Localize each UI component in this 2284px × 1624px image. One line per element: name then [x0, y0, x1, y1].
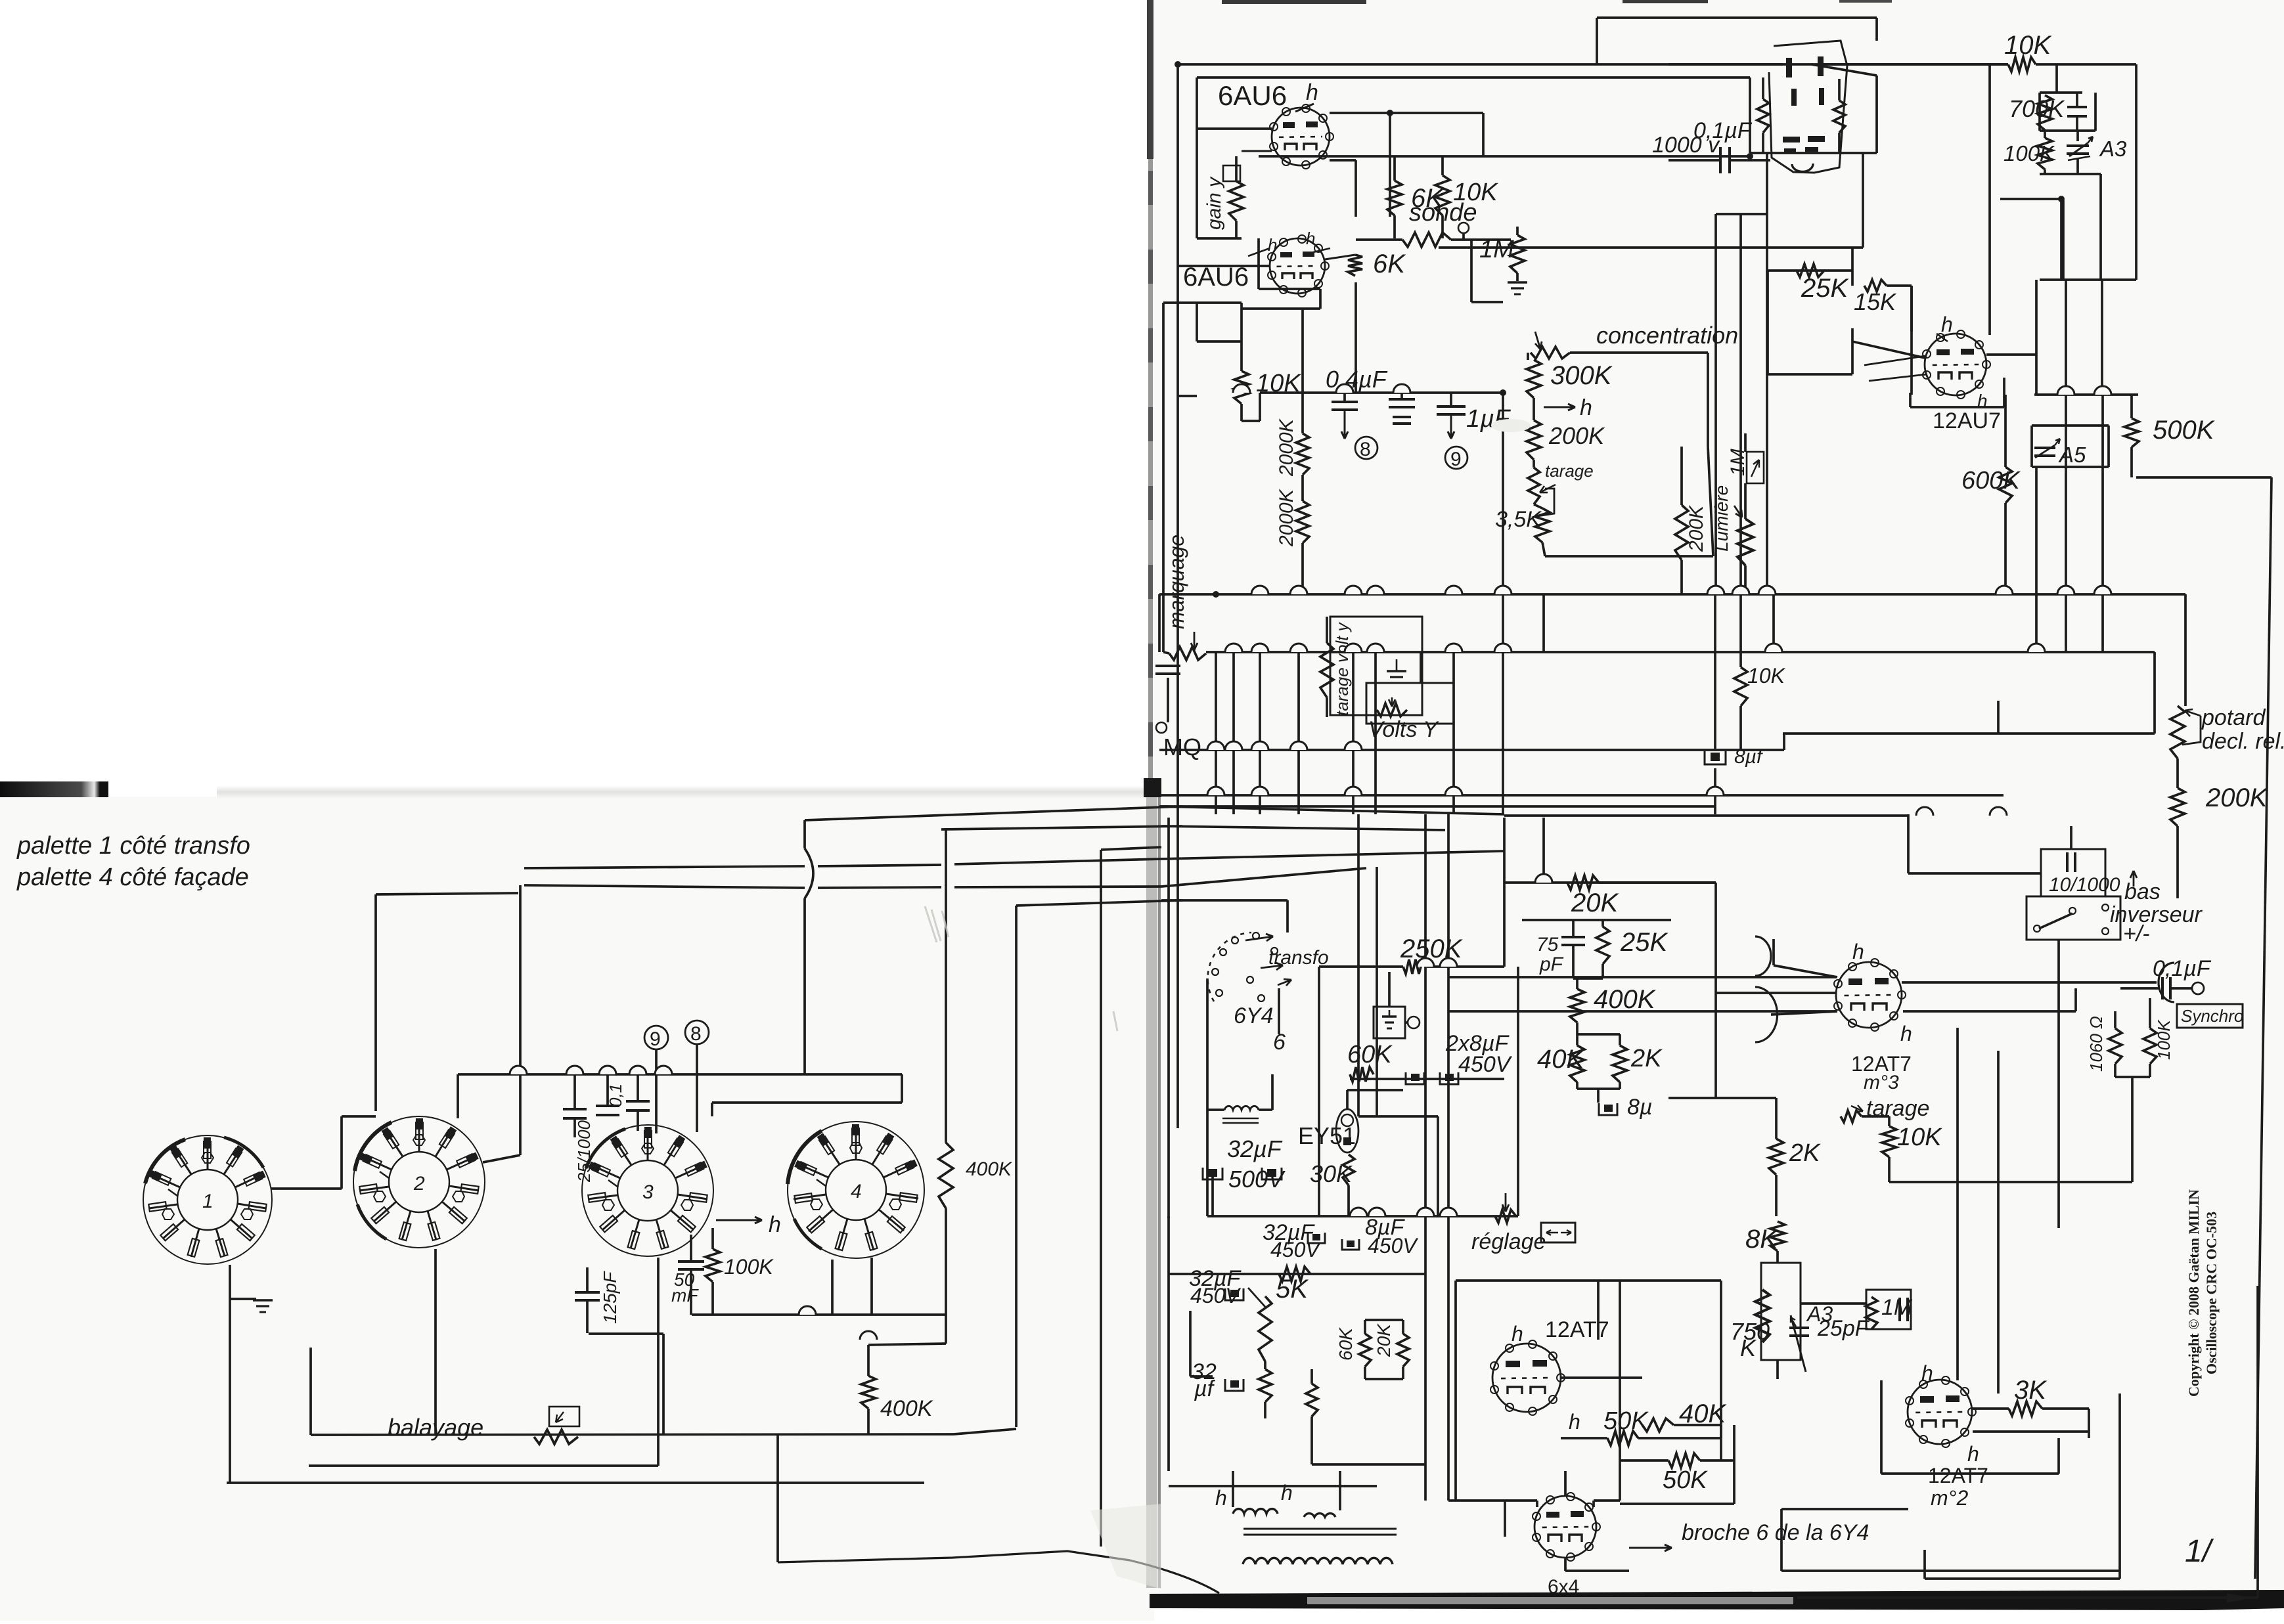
svg-text:Oscilloscope CRC OC-503: Oscilloscope CRC OC-503 — [2203, 1212, 2220, 1374]
svg-text:10K: 10K — [2004, 31, 2052, 60]
svg-text:700K: 700K — [2009, 95, 2065, 122]
svg-text:6K: 6K — [1373, 250, 1406, 278]
svg-text:6Y4: 6Y4 — [1234, 1003, 1274, 1028]
svg-text:transfo: transfo — [1268, 947, 1329, 969]
svg-text:pF: pF — [1539, 954, 1564, 975]
svg-text:h: h — [1967, 1442, 1979, 1466]
svg-text:10K: 10K — [1897, 1124, 1942, 1151]
svg-text:20K: 20K — [1374, 1323, 1394, 1357]
svg-text:60K: 60K — [1335, 1327, 1356, 1361]
svg-text:50K: 50K — [1603, 1407, 1649, 1435]
svg-text:1M: 1M — [1727, 449, 1749, 476]
svg-text:h: h — [1511, 1322, 1523, 1346]
svg-text:50K: 50K — [1663, 1466, 1708, 1494]
svg-text:palette 4 côté façade: palette 4 côté façade — [16, 864, 249, 891]
svg-text:tarage: tarage — [1545, 461, 1594, 481]
svg-text:8K: 8K — [1745, 1225, 1779, 1254]
svg-text:200K: 200K — [1686, 504, 1707, 552]
svg-text:4: 4 — [851, 1181, 862, 1202]
svg-text:3K: 3K — [2014, 1376, 2048, 1405]
svg-text:2: 2 — [413, 1173, 425, 1195]
svg-text:2000K: 2000K — [1276, 488, 1297, 547]
svg-text:100K: 100K — [2154, 1019, 2174, 1060]
svg-text:6AU6: 6AU6 — [1218, 80, 1287, 111]
svg-text:Volts Y: Volts Y — [1368, 717, 1439, 742]
svg-text:1M: 1M — [1479, 236, 1514, 263]
svg-text:8: 8 — [1360, 439, 1371, 460]
svg-text:µf: µf — [1194, 1376, 1216, 1401]
svg-text:m°3: m°3 — [1864, 1072, 1899, 1093]
svg-text:1/: 1/ — [2185, 1534, 2214, 1569]
svg-text:gain y: gain y — [1203, 176, 1225, 230]
svg-text:100K: 100K — [2004, 141, 2055, 165]
svg-text:8: 8 — [690, 1023, 702, 1045]
svg-text:h: h — [1580, 395, 1592, 420]
svg-text:12AT7: 12AT7 — [1928, 1464, 1988, 1487]
svg-text:h: h — [1215, 1486, 1227, 1510]
svg-text:h: h — [1941, 313, 1953, 336]
svg-text:h: h — [769, 1212, 781, 1237]
svg-text:15K: 15K — [1854, 288, 1897, 315]
svg-text:12AT7: 12AT7 — [1545, 1317, 1609, 1342]
svg-text:32µF: 32µF — [1227, 1135, 1283, 1162]
svg-text:decl. rel.: decl. rel. — [2202, 729, 2284, 754]
svg-text:palette 1 côté transfo: palette 1 côté transfo — [16, 832, 250, 860]
svg-text:h: h — [1306, 80, 1318, 105]
svg-text:500K: 500K — [2153, 416, 2216, 445]
svg-text:tarage volt y: tarage volt y — [1332, 621, 1352, 716]
svg-text:m°2: m°2 — [1931, 1486, 1968, 1510]
svg-text:A3: A3 — [2099, 137, 2127, 161]
svg-text:broche 6 de la 6Y4: broche 6 de la 6Y4 — [1682, 1520, 1869, 1545]
svg-text:3: 3 — [642, 1181, 654, 1203]
svg-text:h: h — [1921, 1361, 1933, 1385]
svg-text:1060 Ω: 1060 Ω — [2086, 1016, 2106, 1072]
svg-text:potard: potard — [2201, 705, 2266, 730]
svg-text:100K: 100K — [724, 1255, 774, 1279]
svg-text:200K: 200K — [1548, 422, 1605, 449]
svg-text:2K: 2K — [1789, 1139, 1821, 1167]
svg-text:40K: 40K — [1537, 1045, 1585, 1074]
svg-text:25pF: 25pF — [1817, 1316, 1870, 1341]
svg-text:25K: 25K — [1801, 274, 1849, 303]
svg-text:450V: 450V — [1270, 1238, 1321, 1262]
svg-text:450V: 450V — [1458, 1052, 1513, 1077]
svg-text:9: 9 — [1450, 449, 1462, 470]
svg-text:30K: 30K — [1310, 1160, 1353, 1187]
svg-text:h: h — [1306, 229, 1315, 248]
svg-text:200K: 200K — [2205, 783, 2269, 812]
svg-text:8µ: 8µ — [1627, 1095, 1653, 1120]
svg-text:75: 75 — [1536, 934, 1559, 955]
svg-text:400K: 400K — [1594, 985, 1657, 1014]
svg-text:60K: 60K — [1347, 1041, 1393, 1068]
svg-text:2000K: 2000K — [1276, 418, 1297, 477]
svg-text:5K: 5K — [1276, 1275, 1309, 1304]
svg-text:25K: 25K — [1620, 928, 1668, 957]
svg-text:Lumière: Lumière — [1711, 485, 1732, 552]
svg-text:bas: bas — [2124, 879, 2161, 904]
svg-text:K: K — [1740, 1334, 1757, 1361]
svg-text:12AU7: 12AU7 — [1933, 408, 2001, 433]
svg-text:A5: A5 — [2058, 443, 2086, 467]
svg-text:400K: 400K — [966, 1158, 1013, 1180]
svg-text:marquage: marquage — [1165, 535, 1188, 629]
svg-text:600K: 600K — [1961, 467, 2021, 494]
svg-text:h: h — [1900, 1022, 1912, 1045]
svg-text:mF: mF — [671, 1285, 699, 1306]
svg-text:10K: 10K — [1747, 664, 1786, 688]
svg-text:1: 1 — [202, 1191, 213, 1212]
svg-text:20K: 20K — [1571, 889, 1619, 917]
svg-text:h: h — [1281, 1481, 1293, 1504]
svg-text:2K: 2K — [1630, 1045, 1663, 1072]
svg-text:300K: 300K — [1550, 361, 1613, 390]
svg-text:réglage: réglage — [1471, 1229, 1546, 1254]
svg-text:6x4: 6x4 — [1548, 1576, 1579, 1598]
svg-text:h: h — [1569, 1410, 1580, 1434]
svg-text:0,1µF: 0,1µF — [1693, 118, 1753, 143]
svg-text:+/-: +/- — [2123, 921, 2150, 946]
svg-text:Synchro: Synchro — [2181, 1006, 2243, 1026]
svg-text:9: 9 — [650, 1028, 661, 1050]
svg-text:450V: 450V — [1368, 1234, 1418, 1258]
svg-text:h: h — [1852, 940, 1864, 963]
svg-text:Copyright © 2008 Gaëtan MILIN: Copyright © 2008 Gaëtan MILIN — [2185, 1189, 2202, 1397]
svg-text:10/1000: 10/1000 — [2049, 874, 2120, 896]
svg-text:400K: 400K — [880, 1396, 933, 1421]
svg-text:sonde: sonde — [1409, 199, 1477, 227]
svg-text:h: h — [1268, 235, 1277, 255]
svg-text:125pF: 125pF — [600, 1271, 620, 1324]
svg-text:MQ: MQ — [1163, 734, 1201, 760]
